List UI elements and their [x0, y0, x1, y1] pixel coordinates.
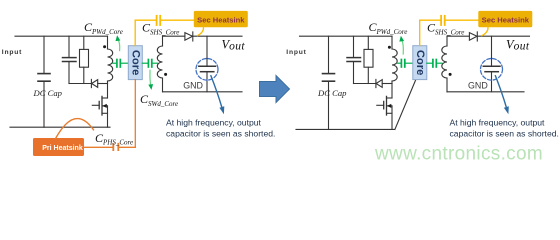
wire yellow core riser: [134, 20, 136, 46]
core box: [128, 46, 142, 80]
wire core ground diagonal: [395, 80, 416, 130]
annotation arrow right: [495, 76, 508, 114]
transistor Q1 MOSFET: [92, 84, 107, 128]
arrow big blue: [260, 76, 290, 103]
capacitor output Cout right: [483, 36, 500, 92]
svg-text:www.cntronics.com: www.cntronics.com: [374, 143, 543, 164]
svg-text:Core: Core: [414, 50, 426, 76]
diode clamp D (points left): [91, 79, 107, 87]
capacitor DC Cap right: [323, 36, 335, 129]
wire yellow to heatsink: [161, 19, 194, 21]
svg-text:DC Cap: DC Cap: [33, 88, 63, 98]
capacitor snubber C: [63, 36, 77, 83]
capacitor C green core-secondary right: [427, 60, 442, 68]
wire yellow top link right: [420, 19, 441, 21]
wire top rail right: [300, 35, 393, 37]
wire secondary bottom rail: [163, 91, 243, 93]
wire secondary bottom rail right: [447, 91, 524, 93]
svg-text:GND: GND: [468, 80, 488, 90]
box Sec Heatsink: [194, 11, 248, 27]
wire yellow heatsink drop right: [482, 27, 488, 35]
node primary dot right: [388, 46, 391, 49]
resistor snubber R right: [364, 36, 373, 83]
diode rectifier D2 (points right): [185, 32, 242, 41]
wire top rail left: [15, 35, 108, 37]
wire yellow heatsink drop: [198, 27, 204, 35]
svg-text:Input: Input: [286, 49, 306, 56]
capacitor C_PHS orange: [113, 144, 118, 150]
svg-text:GND: GND: [183, 80, 203, 90]
wire orange to C_PHS: [84, 146, 112, 148]
wire orange heatsink arc: [56, 119, 94, 139]
capacitor DC Cap: [38, 36, 50, 127]
wire secondary top right: [447, 35, 469, 37]
wire yellow core riser right: [419, 20, 421, 46]
wire bottom rail right: [296, 128, 395, 130]
svg-text:capacitor is seen as shorted.: capacitor is seen as shorted.: [450, 129, 559, 139]
core box right: [413, 46, 427, 80]
box Sec Heatsink right: [478, 11, 532, 27]
node secondary dot right: [449, 73, 452, 76]
wire yellow top link: [135, 19, 156, 21]
inductor primary winding: [108, 36, 113, 83]
transistor Q2 MOSFET right: [377, 84, 392, 130]
svg-text:Sec Heatsink: Sec Heatsink: [482, 15, 530, 24]
inductor secondary winding: [157, 36, 162, 92]
svg-text:Vout: Vout: [222, 37, 246, 52]
svg-text:Input: Input: [2, 49, 22, 56]
svg-text:DC Cap: DC Cap: [317, 88, 347, 98]
inductor secondary winding right: [442, 36, 447, 92]
svg-text:Vout: Vout: [506, 37, 530, 52]
svg-text:Core: Core: [129, 50, 141, 76]
annotation arrow from Cout to caption: [211, 76, 224, 114]
highlight dashed ellipse around Cout: [196, 59, 218, 81]
diode clamp D right: [376, 79, 392, 87]
capacitor C green core-secondary: [142, 60, 157, 68]
inductor primary winding right: [392, 36, 397, 83]
capacitor C green primary-core: [113, 60, 128, 68]
capacitor snubber C right: [347, 36, 361, 83]
arrow green to PWd label right: [399, 36, 404, 54]
svg-text:Sec Heatsink: Sec Heatsink: [197, 15, 245, 24]
wire bottom rail left: [10, 126, 110, 128]
box Pri Heatsink: [33, 138, 84, 156]
arrow green to SWd label: [148, 70, 153, 90]
diode rectifier D2 right: [469, 32, 529, 41]
svg-text:At high frequency, output: At high frequency, output: [166, 118, 262, 128]
wire secondary top: [163, 35, 185, 37]
svg-text:Pri Heatsink: Pri Heatsink: [42, 145, 83, 152]
capacitor output Cout: [199, 36, 216, 92]
node secondary dot: [164, 73, 167, 76]
wire clamp node: [69, 83, 91, 85]
wire orange cap to riser: [120, 146, 136, 148]
arrow green to PWd label: [115, 35, 120, 50]
resistor snubber R: [80, 36, 89, 83]
wire clamp node right: [354, 83, 376, 85]
highlight dashed ellipse right: [481, 59, 503, 81]
capacitor C_SHS yellow right: [441, 16, 445, 25]
capacitor C_SHS yellow: [157, 16, 161, 25]
capacitor C green primary-core right: [397, 60, 412, 68]
wire yellow to heatsink right: [445, 19, 478, 21]
svg-text:At high frequency, output: At high frequency, output: [450, 118, 546, 128]
wire orange core riser: [134, 80, 136, 148]
node primary dot: [103, 45, 106, 48]
svg-text:capacitor is seen as shorted.: capacitor is seen as shorted.: [166, 129, 275, 139]
